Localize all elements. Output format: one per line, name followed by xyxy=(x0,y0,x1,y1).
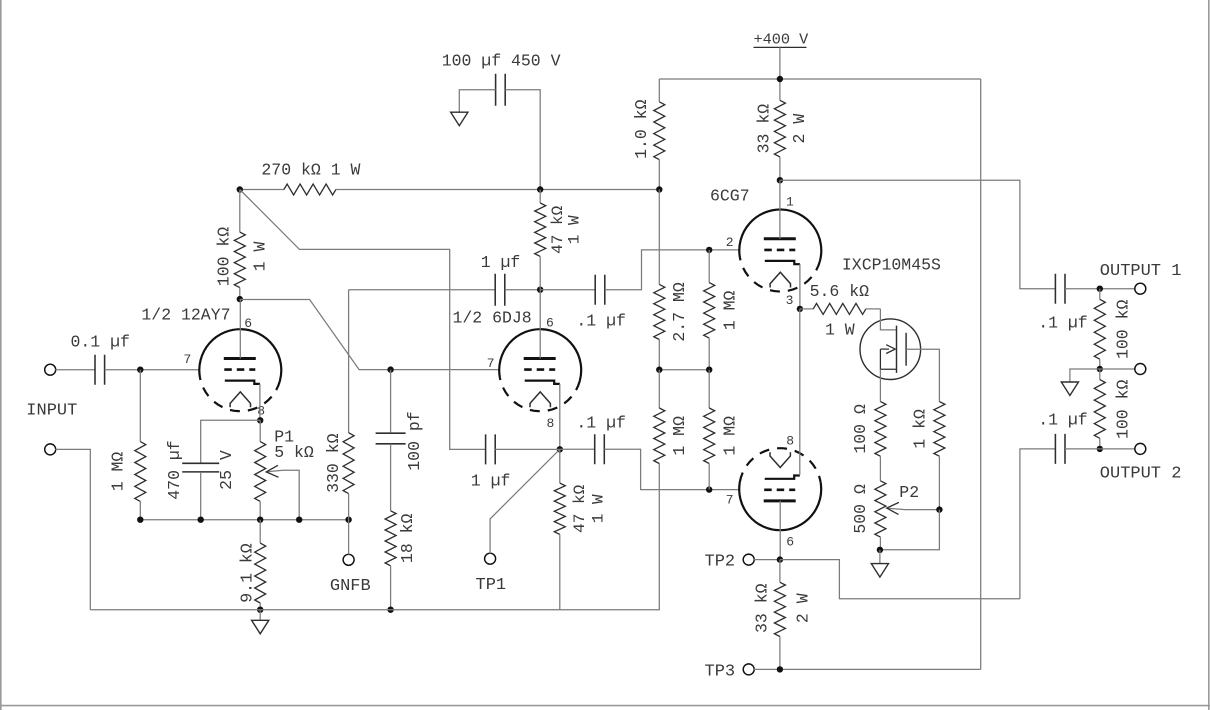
svg-text:1/2 6DJ8: 1/2 6DJ8 xyxy=(453,309,532,328)
svg-text:2 W: 2 W xyxy=(793,593,812,623)
junction 270k left node xyxy=(237,186,243,192)
junction bottom rail 9.1k xyxy=(257,607,263,613)
terminal OUTPUT 1 xyxy=(1135,283,1146,294)
wire plate rail y189.5 left xyxy=(240,189,284,191)
resistor 100 kΩ 1 W xyxy=(239,190,241,233)
wire 33k to plate xyxy=(779,179,781,181)
svg-text:8: 8 xyxy=(257,404,265,419)
wire top rail y79 xyxy=(659,78,980,80)
ground filter cap xyxy=(451,112,468,126)
svg-text:25 V: 25 V xyxy=(217,450,236,490)
wire 6DJ8 cathode lead xyxy=(559,384,561,449)
junction 1.0k bottom node xyxy=(656,186,662,192)
terminal GNFB xyxy=(343,554,354,565)
svg-text:1 MΩ: 1 MΩ xyxy=(720,290,739,330)
svg-text:470 µf: 470 µf xyxy=(165,440,184,499)
svg-text:IXCP10M45S: IXCP10M45S xyxy=(842,256,941,275)
junction output2 node xyxy=(1097,446,1103,452)
resistor 100 kΩ output lower xyxy=(1099,369,1101,380)
ground P2 xyxy=(871,564,888,578)
wire cap to grid xyxy=(105,369,200,371)
wire 1µf to 6DJ8 plate xyxy=(505,289,540,291)
svg-text:3: 3 xyxy=(786,293,794,308)
wire 470µf bottom xyxy=(200,472,202,520)
svg-text:47 kΩ: 47 kΩ xyxy=(571,484,589,532)
wire 100pf to 18k xyxy=(390,444,392,511)
capacitor 470 µf 25 V xyxy=(182,463,219,472)
svg-text:100 pf: 100 pf xyxy=(405,411,424,470)
Q1 gate bar xyxy=(896,326,898,373)
svg-text:33 kΩ: 33 kΩ xyxy=(754,104,773,154)
resistor 5.6 kΩ 1 W xyxy=(800,308,813,310)
svg-text:7: 7 xyxy=(184,352,192,367)
wire cathode to .1µf lower xyxy=(560,448,595,450)
potentiometer P1 5 kΩ xyxy=(259,420,261,441)
wire divider mid rail xyxy=(659,369,709,371)
wire 1µf lower to cathode xyxy=(495,448,560,450)
wire cathode to 470µf xyxy=(201,420,261,463)
svg-text:270 kΩ 1 W: 270 kΩ 1 W xyxy=(261,161,360,180)
terminal TP2 xyxy=(743,554,754,565)
svg-text:500 Ω: 500 Ω xyxy=(851,484,870,534)
wire 6DJ8 plate lead xyxy=(539,290,541,359)
svg-text:18 kΩ: 18 kΩ xyxy=(398,513,417,563)
svg-text:1.0 kΩ: 1.0 kΩ xyxy=(632,99,651,159)
wire +400V feed xyxy=(779,47,781,100)
terminal INPUT return xyxy=(45,444,56,455)
resistor 33 kΩ 2 W lower xyxy=(779,560,781,583)
svg-text:.1 µf: .1 µf xyxy=(576,414,626,433)
svg-text:6CG7: 6CG7 xyxy=(710,187,750,206)
junction lower plate node xyxy=(777,556,783,562)
svg-text:47 kΩ: 47 kΩ xyxy=(549,205,567,253)
wire mid to terminal xyxy=(1100,368,1135,370)
svg-text:P2: P2 xyxy=(899,483,919,502)
capacitor 1 µf lower xyxy=(486,434,496,464)
wire 330k top to 1µf xyxy=(349,289,496,291)
resistor 1 MΩ lower-right xyxy=(708,370,710,408)
wire upper plate to output cap xyxy=(780,180,1055,289)
wire mid to ground xyxy=(1070,369,1100,382)
wire 12AY7 plate lead xyxy=(239,299,241,358)
svg-text:100 µf 450 V: 100 µf 450 V xyxy=(442,52,561,71)
svg-text:2 W: 2 W xyxy=(790,114,809,144)
tube V3B 6CG7 lower xyxy=(739,448,821,530)
wire TP1 stem xyxy=(490,449,560,553)
wire diagonal plate rail to bus xyxy=(240,190,486,450)
svg-text:1: 1 xyxy=(786,195,794,210)
resistor 1 kΩ xyxy=(934,402,945,457)
junction divider mid left xyxy=(656,367,662,373)
capacitor 0.1 µf input xyxy=(95,355,105,385)
capacitor .1 µf output 1 xyxy=(1055,274,1065,304)
svg-text:1 W: 1 W xyxy=(250,242,269,272)
svg-text:5.6 kΩ: 5.6 kΩ xyxy=(810,282,870,301)
junction 47k top node xyxy=(537,186,543,192)
junction 6DJ8 plate node xyxy=(537,287,543,293)
wire GNFB stem xyxy=(348,520,350,555)
junction 12AY7 cathode node xyxy=(257,417,263,423)
junction cathode rail P1 xyxy=(257,517,263,523)
transistor Q1 IXCP10M45S body xyxy=(860,319,921,380)
wire input return xyxy=(55,449,90,609)
svg-text:6: 6 xyxy=(786,535,794,550)
resistor 2.7 MΩ xyxy=(658,190,660,285)
wire cap1 to OUTPUT 1 xyxy=(1065,288,1135,290)
svg-text:OUTPUT 2: OUTPUT 2 xyxy=(1100,465,1182,484)
svg-text:0.1 µf: 0.1 µf xyxy=(71,333,130,352)
svg-text:2.7 MΩ: 2.7 MΩ xyxy=(670,282,689,342)
wire TP2 to plate node xyxy=(754,559,780,561)
svg-text:TP1: TP1 xyxy=(476,576,507,595)
junction 1M top / 6CG7 grid xyxy=(706,247,712,253)
resistor 100 Ω xyxy=(875,402,886,457)
junction 6CG7 cathode node xyxy=(797,306,803,312)
svg-text:7: 7 xyxy=(487,356,495,371)
wire plate node to output drop xyxy=(780,560,1020,599)
wire cap2 to OUTPUT 2 xyxy=(1065,448,1135,450)
junction input grid node xyxy=(137,367,143,373)
tube V2 1/2 6DJ8 xyxy=(499,329,581,411)
svg-text:2: 2 xyxy=(726,235,734,250)
svg-text:TP2: TP2 xyxy=(705,553,736,572)
capacitor 100 pf xyxy=(376,433,406,444)
Q1 channel bar xyxy=(905,333,907,366)
capacitor .1 µf upper mid xyxy=(595,275,605,305)
terminal output mid xyxy=(1135,364,1146,375)
junction +400V rail xyxy=(777,76,783,82)
wire filter cap left xyxy=(459,90,495,112)
resistor 9.1 kΩ xyxy=(259,520,261,543)
junction bottom rail 18k xyxy=(387,607,393,613)
svg-text:1/2 12AY7: 1/2 12AY7 xyxy=(141,306,230,325)
terminal TP3 xyxy=(743,664,754,675)
junction 6DJ8 grid node xyxy=(387,366,393,372)
svg-text:100 kΩ: 100 kΩ xyxy=(1113,300,1132,360)
Q1 body line with arrow xyxy=(880,348,889,350)
wire ground stem 9.1k xyxy=(259,610,261,620)
resistor 33 kΩ 2 W upper xyxy=(779,99,781,101)
Q1 gate lead xyxy=(880,309,896,330)
svg-text:100 kΩ: 100 kΩ xyxy=(1113,380,1132,440)
svg-text:1 µf: 1 µf xyxy=(471,472,511,491)
wire P1 wiper xyxy=(267,470,299,520)
capacitor .1 µf output 2 xyxy=(1055,434,1065,464)
resistor 330 kΩ xyxy=(348,290,350,433)
resistor 1 MΩ input xyxy=(139,370,141,442)
terminal OUTPUT 2 xyxy=(1135,443,1146,454)
wire filter cap right xyxy=(505,90,540,190)
junction output mid node xyxy=(1097,366,1103,372)
terminal TP1 xyxy=(485,553,496,564)
svg-text:TP3: TP3 xyxy=(705,663,736,682)
junction 33k bottom node xyxy=(777,177,783,183)
svg-text:330 kΩ: 330 kΩ xyxy=(324,433,343,493)
svg-text:8: 8 xyxy=(786,434,794,449)
svg-text:33 kΩ: 33 kΩ xyxy=(752,583,771,633)
wire wiper return xyxy=(880,510,940,550)
wire cathode rail y519.7 xyxy=(140,519,348,521)
junction cathode rail 1M xyxy=(137,517,143,523)
svg-text:8: 8 xyxy=(547,416,555,431)
wire .1µf lower to grid row xyxy=(604,449,739,489)
svg-text:1 W: 1 W xyxy=(566,215,584,244)
svg-text:1 W: 1 W xyxy=(590,494,608,523)
capacitor 1 µf upper xyxy=(495,274,505,306)
svg-text:.1 µf: .1 µf xyxy=(576,312,626,331)
svg-text:5 kΩ: 5 kΩ xyxy=(274,443,314,462)
junction P2 wiper node xyxy=(936,506,942,512)
page border xyxy=(0,0,2,710)
wire 6CG7B cathode lead xyxy=(799,309,801,475)
svg-text:.1 µf: .1 µf xyxy=(1038,314,1088,333)
wire 6DJ8 plate to .1µf xyxy=(540,289,595,291)
wire 6CG7 cathode lead xyxy=(799,264,801,309)
Q1 source bar xyxy=(880,349,896,369)
junction divider mid right xyxy=(706,367,712,373)
wire .1µf to 6CG7 grid xyxy=(605,250,740,290)
svg-text:7: 7 xyxy=(726,493,734,508)
wire grid node to 100pf xyxy=(390,370,392,433)
terminal INPUT hot xyxy=(45,364,56,375)
resistor 47 kΩ 1 W upper xyxy=(539,190,541,204)
svg-text:9.1 kΩ: 9.1 kΩ xyxy=(238,543,257,603)
svg-text:1 MΩ: 1 MΩ xyxy=(108,452,127,492)
Q1 drain lead xyxy=(906,349,939,401)
junction cathode rail 470µf xyxy=(198,517,204,523)
svg-text:100 Ω: 100 Ω xyxy=(851,404,870,454)
svg-text:INPUT: INPUT xyxy=(26,402,77,421)
junction 12AY7 plate node xyxy=(237,296,243,302)
svg-text:1 kΩ: 1 kΩ xyxy=(910,409,929,449)
wire bottom rail y609.7 xyxy=(90,464,659,610)
wire input to cap xyxy=(55,369,95,371)
junction cathode rail wiper xyxy=(296,517,302,523)
junction 6DJ8 cathode node xyxy=(557,446,563,452)
junction cathode rail GNFB xyxy=(345,517,351,523)
svg-text:6: 6 xyxy=(244,316,252,331)
tube V1 1/2 12AY7 xyxy=(199,329,281,411)
resistor 1 MΩ lower-left xyxy=(658,370,660,408)
svg-text:1 W: 1 W xyxy=(825,321,855,340)
resistor 270 kΩ 1 W xyxy=(284,184,336,195)
Q1 source lead xyxy=(879,369,881,401)
resistor 47 kΩ 1 W lower xyxy=(559,449,561,483)
capacitor .1 µf lower mid xyxy=(595,434,605,464)
junction output1 node xyxy=(1097,286,1103,292)
svg-text:1 MΩ: 1 MΩ xyxy=(670,416,689,456)
junction TP3 node xyxy=(777,666,783,672)
wire diagonal 12AY7 plate to 6DJ8 grid xyxy=(240,300,500,370)
svg-text:100 kΩ: 100 kΩ xyxy=(214,227,233,287)
wire right bus x980.7 xyxy=(980,79,982,669)
wire P2 wiper xyxy=(888,508,940,509)
potentiometer P2 500 Ω xyxy=(875,481,886,537)
junction P2 bottom node xyxy=(877,547,883,553)
capacitor C-filter 100 µf xyxy=(496,74,506,106)
resistor 18 kΩ xyxy=(385,511,396,566)
wire plate rail y189.5 right xyxy=(336,189,659,191)
resistor 1.0 kΩ xyxy=(658,79,660,102)
svg-text:GNFB: GNFB xyxy=(330,577,371,596)
ground output mid xyxy=(1061,382,1078,396)
svg-text:1 µf: 1 µf xyxy=(481,253,521,272)
junction 1M bottom / lower grid xyxy=(706,486,712,492)
tube V3A 6CG7 upper xyxy=(739,209,821,291)
svg-text:6: 6 xyxy=(546,316,554,331)
wire ground stem P2 xyxy=(879,550,881,564)
wire lower plate to output cap 2 xyxy=(1020,449,1055,599)
ground 9.1k xyxy=(252,620,269,634)
svg-text:.1 µf: .1 µf xyxy=(1038,411,1088,430)
svg-text:1 MΩ: 1 MΩ xyxy=(720,416,739,456)
svg-text:OUTPUT 1: OUTPUT 1 xyxy=(1100,262,1182,281)
resistor 1 MΩ upper xyxy=(708,250,710,283)
wire TP3 to bus xyxy=(754,668,981,670)
wire 6CG7B plate lead xyxy=(779,501,781,560)
wire 6CG7 plate lead xyxy=(779,180,781,239)
svg-text:+400 V: +400 V xyxy=(754,31,810,49)
wire 12AY7 cathode lead xyxy=(259,384,261,420)
resistor 100 kΩ output upper xyxy=(1099,289,1101,300)
